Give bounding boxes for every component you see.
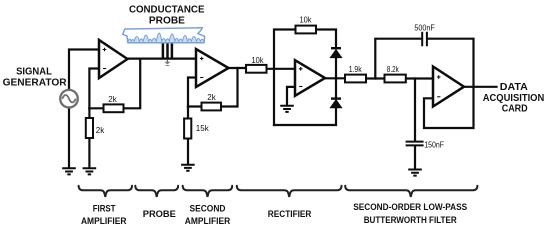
svg-text:10k: 10k (300, 16, 313, 25)
svg-text:BUTTERWORTH FILTER: BUTTERWORTH FILTER (364, 215, 457, 225)
svg-text:500nF: 500nF (414, 23, 435, 32)
svg-text:FIRST: FIRST (93, 204, 116, 214)
svg-text:PROBE: PROBE (143, 209, 176, 219)
svg-text:AMPLIFIER: AMPLIFIER (185, 216, 231, 226)
svg-text:2k: 2k (108, 95, 117, 104)
svg-text:10k: 10k (252, 56, 265, 65)
svg-text:15k: 15k (196, 124, 210, 133)
svg-text:SIGNAL: SIGNAL (16, 67, 52, 78)
svg-text:GENERATOR: GENERATOR (3, 78, 68, 89)
svg-text:1.9k: 1.9k (349, 65, 363, 74)
svg-text:SECOND: SECOND (190, 204, 226, 214)
svg-text:2k: 2k (207, 93, 216, 102)
svg-text:CONDUCTANCE: CONDUCTANCE (129, 5, 205, 16)
svg-text:RECTIFIER: RECTIFIER (268, 209, 312, 219)
svg-text:ACQUISITION: ACQUISITION (483, 93, 545, 104)
svg-text:2k: 2k (96, 126, 105, 135)
svg-text:DATA: DATA (500, 82, 528, 93)
svg-text:SECOND-ORDER LOW-PASS: SECOND-ORDER LOW-PASS (353, 202, 467, 212)
svg-text:150nF: 150nF (424, 140, 444, 149)
svg-text:AMPLIFIER: AMPLIFIER (81, 216, 127, 226)
svg-text:PROBE: PROBE (149, 15, 185, 26)
svg-text:8.2k: 8.2k (387, 65, 400, 74)
svg-text:CARD: CARD (502, 104, 528, 115)
